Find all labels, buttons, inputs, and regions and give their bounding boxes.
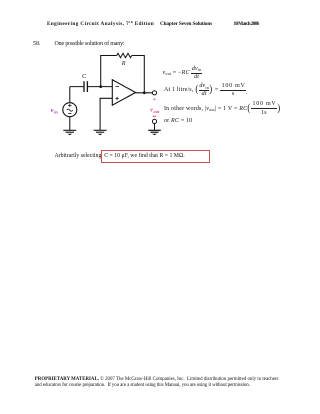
problem number <box>33 41 41 47</box>
wire source bottom <box>69 117 71 130</box>
equation line 3 <box>164 103 281 115</box>
equation line 1 <box>163 68 202 79</box>
equation line 2 <box>164 84 248 96</box>
wire input to inverting input <box>70 86 113 88</box>
answer highlight box <box>101 150 210 163</box>
wire output ground stem <box>154 124 156 130</box>
svg-text:in: in <box>54 109 58 114</box>
source vin <box>63 103 77 117</box>
capacitor C <box>84 81 87 92</box>
wire feedback top <box>101 56 145 93</box>
svg-text:out: out <box>154 109 160 114</box>
header left <box>47 21 154 27</box>
resistor R <box>117 53 132 57</box>
header right <box>234 21 259 27</box>
output terminal top <box>152 91 156 95</box>
equation line 4 <box>164 118 192 124</box>
node A junction dot <box>99 85 102 88</box>
problem statement <box>55 41 125 47</box>
header center <box>160 21 212 27</box>
ground under noninverting input <box>94 130 107 135</box>
svg-text:+: + <box>153 97 156 103</box>
wire output <box>136 92 153 94</box>
node B junction dot <box>143 91 146 94</box>
footer line 1 <box>35 377 279 382</box>
ground at output <box>148 130 161 135</box>
label - polarity <box>153 115 156 117</box>
output terminal bottom <box>152 119 156 123</box>
footer line 2 <box>35 383 250 388</box>
wire source top <box>69 87 71 103</box>
wire noninverting input <box>100 98 112 130</box>
ground under source <box>63 130 76 135</box>
svg-text:C: C <box>82 73 87 80</box>
answer sentence <box>55 153 185 159</box>
op-amp U1 <box>112 80 135 106</box>
svg-text:R: R <box>121 60 126 67</box>
